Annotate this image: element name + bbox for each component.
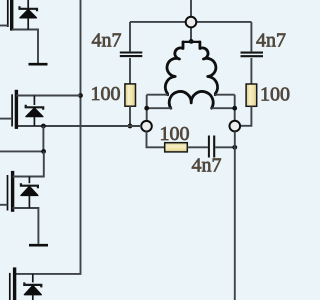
channel bar M2 <box>15 90 18 129</box>
terminal node: right <box>230 121 241 132</box>
gate wire M1 <box>0 25 8 27</box>
svg-text:100: 100 <box>91 83 121 105</box>
transistor M4 (bottom, partially cut) <box>10 267 42 300</box>
gate wire M3 <box>0 204 8 206</box>
svg-text:4n7: 4n7 <box>256 29 286 51</box>
capacitor C-bottom 4n7 <box>209 136 214 158</box>
diode D2 (body) <box>33 96 35 106</box>
svg-text:4n7: 4n7 <box>192 154 222 176</box>
source wire M1 <box>12 30 38 64</box>
svg-text:100: 100 <box>160 123 190 145</box>
ground M3 <box>29 244 48 247</box>
resistor R-right 100 <box>246 84 257 106</box>
wire: top rail <box>130 21 251 23</box>
wire: bottom cap to right phase <box>215 146 235 148</box>
junction: RC to right phase wire <box>232 145 237 150</box>
drain wire M2 <box>16 95 80 97</box>
gate wire M2 <box>0 118 12 120</box>
gate bar M3 <box>7 175 9 211</box>
wire: right winding vertical <box>234 95 236 121</box>
wire: phase wire from M2 source to left terminal <box>16 125 141 127</box>
channel bar M4 <box>13 267 16 300</box>
wire: right coil stub <box>215 94 235 96</box>
terminal node: top <box>186 17 197 28</box>
resistor R-bottom 100 <box>165 143 188 152</box>
wire: stub above top terminal <box>190 0 192 17</box>
wire: right cap to resistor <box>250 58 252 84</box>
gate bar M4 <box>9 273 11 300</box>
wire: right phase down to bottom edge <box>234 131 236 300</box>
capacitor C-left 4n7 <box>120 53 143 57</box>
wire: M3 drain link to left edge <box>0 150 44 152</box>
coil: right phase winding <box>200 42 218 95</box>
junction: left winding stubs <box>144 106 149 111</box>
wire: top terminal to winding vertex <box>190 27 192 41</box>
junction: winding top vertex <box>189 39 194 44</box>
wire: M2 source down to M3 drain link <box>42 126 44 151</box>
diode D3 (body) <box>28 177 30 184</box>
junction: left snubber on phase wire <box>128 124 133 129</box>
channel bar M1 <box>10 0 13 31</box>
drain wire M3 <box>13 151 44 176</box>
svg-text:4n7: 4n7 <box>92 29 122 51</box>
coil: left phase winding <box>165 42 183 95</box>
transistor M3 (low side, left phase) <box>0 151 48 245</box>
source wire M3 <box>13 208 39 244</box>
wire: supply vertical (top edge to M4 drain) <box>15 0 81 274</box>
wire: left resistor to phase wire <box>129 106 131 126</box>
wire: right resistor down and left to terminal <box>240 106 252 126</box>
junction: right winding stubs <box>232 106 237 111</box>
transistor M2 (high side, left phase) <box>0 90 81 129</box>
winding: top vertex bar and drops <box>183 41 200 43</box>
diode D1 (body) <box>27 0 29 8</box>
capacitor C-right 4n7 <box>241 53 264 57</box>
coil: bottom phase winding <box>169 91 213 108</box>
gate bar M1 <box>7 0 9 27</box>
wire: left coil stub <box>147 94 168 96</box>
wire: bottom coil right stub <box>210 107 234 109</box>
resistor R-left 100 <box>125 84 136 106</box>
terminal node: left <box>141 121 152 132</box>
wire: left snubber vertical (rail to cap) <box>129 22 131 52</box>
junction: M3 drain link <box>41 149 46 154</box>
transistor M1 (top, partially cut) <box>0 0 48 64</box>
gate bar M2 <box>11 94 13 126</box>
wire: left cap to resistor <box>129 58 131 84</box>
junction: M2 drain on supply line <box>78 93 83 98</box>
junction: M2 source branch <box>41 124 46 129</box>
wire: left winding vertical <box>146 95 148 121</box>
svg-text:100: 100 <box>260 83 290 105</box>
channel bar M3 <box>11 171 14 212</box>
wire: right snubber vertical (rail to cap) <box>250 22 252 52</box>
ground M1 <box>29 63 48 66</box>
wire: bottom resistor to cap <box>187 146 208 148</box>
diode D4 (body) <box>32 274 34 283</box>
wire: bottom coil left stub <box>147 107 172 109</box>
wire: left terminal down to series RC <box>147 131 165 147</box>
